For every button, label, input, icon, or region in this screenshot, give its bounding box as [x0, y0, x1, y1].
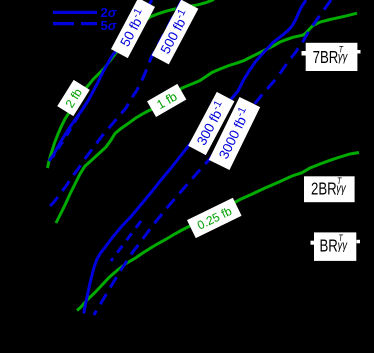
blue solid 2-sigma curve, 300 fb-1 — [84, 0, 306, 314]
extra dashes near 50fb line — [53, 102, 87, 157]
label 500 fb-1 — [152, 0, 199, 64]
green theory curve, 0.25 fb contour (2BR_gamma_gamma) — [77, 153, 359, 311]
legend solid line — [53, 11, 97, 14]
label 300 fb-1 — [188, 92, 234, 155]
legend dashed line — [53, 22, 97, 25]
green theory curve, 1 fb contour (7BR_gamma_gamma) — [56, 13, 357, 223]
svg-text:γγ: γγ — [336, 182, 347, 196]
leader nubs of BR label — [311, 241, 315, 245]
label box BR^T_gamma_gamma — [314, 232, 356, 261]
svg-text:5σ: 5σ — [101, 18, 118, 33]
svg-text:BR: BR — [320, 237, 338, 256]
label 3000 fb-1 — [209, 97, 260, 170]
green theory curve, 2 fb contour — [48, 0, 215, 168]
label 0.25 fb — [187, 198, 242, 238]
label 50 fb-1 — [111, 0, 155, 58]
label 2 fb — [57, 80, 90, 116]
label 1 fb — [147, 84, 186, 117]
svg-text:2BR: 2BR — [311, 180, 337, 199]
blue dashed 5-sigma curve, 500 fb-1 — [46, 0, 182, 211]
label box 2BR^T_gamma_gamma — [304, 175, 355, 202]
label box 7BR^T_gamma_gamma — [306, 43, 358, 71]
svg-text:γγ: γγ — [338, 51, 349, 65]
leader nubs of 7BR label — [302, 51, 307, 56]
blue dashed 5-sigma curve, 3000 fb-1 — [94, 0, 331, 315]
extra dashes near 300fb line — [111, 221, 141, 261]
blue solid 2-sigma curve, 50 fb-1 — [49, 0, 152, 161]
svg-text:γγ: γγ — [338, 239, 349, 253]
svg-text:7BR: 7BR — [313, 48, 339, 67]
